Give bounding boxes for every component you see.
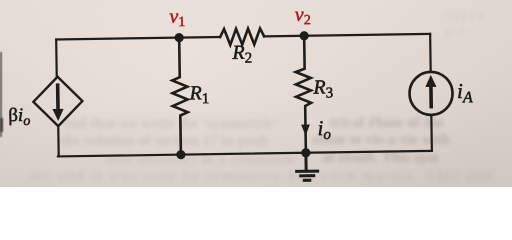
svg-text:R2: R2 [231, 42, 252, 67]
node R1-bottom junction dot [176, 150, 185, 159]
circuit schematic [0, 0, 512, 187]
wire right branch lower [430, 115, 433, 151]
ground node junction dot [301, 148, 310, 157]
i_o current arrow on R3 branch [301, 125, 310, 136]
wire bottom rail [58, 151, 432, 157]
ground [296, 153, 317, 181]
resistor R3 [295, 36, 312, 153]
node v2 junction dot [299, 31, 308, 40]
svg-text:v1: v1 [169, 6, 185, 31]
wire right branch upper [429, 34, 432, 72]
wire top rail v1-v2 span [56, 34, 430, 40]
wire left branch lower [57, 126, 60, 156]
svg-text:io: io [317, 116, 331, 143]
svg-text:R1: R1 [188, 82, 209, 107]
dependent current source diamond (beta i_o) [33, 76, 83, 126]
svg-text:v2: v2 [295, 4, 311, 29]
current source arrow (up) [425, 75, 437, 109]
independent current source i_A circle [409, 72, 453, 116]
bleed-through text (page show-through) [444, 8, 484, 40]
resistor R1 [172, 38, 189, 155]
resistor R2 [220, 28, 264, 45]
svg-text:βio: βio [8, 105, 30, 129]
dependent source arrow (down) [52, 83, 64, 121]
svg-text:iA: iA [457, 79, 473, 107]
svg-text:R3: R3 [312, 76, 333, 101]
wire left branch upper [55, 39, 58, 76]
faint scan left-edge shadow [0, 52, 2, 137]
node v1 junction dot [174, 33, 183, 42]
